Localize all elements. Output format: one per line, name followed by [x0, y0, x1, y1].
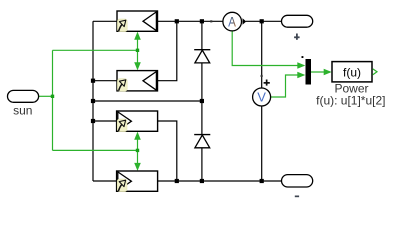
wire: voltmeter branch lower vertical x=261.7 [261, 106, 263, 181]
wire: B3 output to bottom rail vertical x=176.8 [158, 121, 177, 181]
signal wire: sun branch vertical x=52.5 [52, 50, 54, 150]
wire: left rail vertical x=93 [92, 21, 94, 181]
signal wire: vertical to B1/B2 irradiance ports [137, 34, 139, 68]
signal wire: voltmeter output right, up, right to mux [271, 75, 304, 97]
wire: B3 left port stub [93, 120, 117, 122]
arrowhead into f(u) input [324, 69, 332, 75]
arrowhead into mux input 2 [297, 72, 305, 78]
junction dot bottom rail at B3/B4 join [175, 179, 179, 183]
junction dot left rail at mid node [91, 99, 95, 103]
junction dot top rail at diode chain [200, 19, 204, 23]
arrowhead into B4 top [134, 163, 141, 171]
wire: B2 left port stub [93, 80, 117, 82]
svg-text:A: A [228, 13, 236, 29]
diode D1 (bypass, pointing up) [194, 50, 210, 63]
output port - (oval) [282, 175, 313, 187]
wire: B4 left port stub [93, 180, 117, 182]
green junction at lower pair branch [136, 149, 139, 152]
wire: voltmeter branch upper vertical x=261.7 [261, 21, 263, 88]
svg-text:sun: sun [13, 104, 32, 118]
junction dot top rail at B1/B2 join [175, 19, 179, 23]
library link badge on block 4 [117, 179, 127, 192]
arrowhead into B3 bottom [134, 132, 141, 140]
solar cell block 3 (mirrored) [117, 111, 158, 131]
unconnected output chevron of f(u) [373, 69, 377, 75]
svg-text:f(u): u[1]*u[2]: f(u): u[1]*u[2] [316, 93, 385, 107]
signal wire: upper branch horizontal y=50.3 [53, 49, 138, 51]
arrowhead into B1 bottom [134, 32, 141, 40]
solar cell block 1 [117, 11, 158, 31]
Fcn block f(u) [332, 62, 372, 82]
junction dot mid node at diode chain [200, 99, 204, 103]
arrowhead into B2 top [134, 62, 141, 70]
label + [294, 36, 300, 38]
wire: top rail from B1 output to ammeter [158, 20, 223, 22]
junction dot top rail at voltmeter branch [260, 19, 264, 23]
junction dot bottom rail at voltmeter branch [260, 179, 264, 183]
solar cell block 2 [117, 71, 158, 91]
junction dot bottom rail at diode chain [200, 179, 204, 183]
ammeter (current sensor) [223, 12, 242, 31]
arrowhead into mux input 1 [297, 62, 305, 68]
library link badge on block 2 [117, 79, 127, 92]
mux tiny dot [302, 56, 304, 58]
library link badge on block 3 [117, 119, 127, 132]
plus polarity mark at voltmeter [264, 82, 270, 84]
wire: diode chain vertical middle [201, 63, 203, 135]
junction dot left rail at B2 [91, 79, 95, 83]
output port + (oval) [282, 15, 313, 27]
wire: bottom rail y=181 [158, 180, 282, 182]
label - [295, 196, 299, 198]
wire: mid node horizontal y=101 [93, 100, 202, 102]
voltmeter (voltage sensor) [253, 88, 271, 106]
signal wire: lower branch horizontal y=150.4 [53, 149, 138, 151]
arrowhead after ammeter [243, 18, 247, 25]
signal wire: mux output to f(u) [311, 71, 330, 73]
diode D2 (bypass, pointing up) [194, 135, 210, 148]
wire: diode chain vertical lower [201, 148, 203, 182]
green junction at sun branch [51, 95, 54, 98]
tick on voltmeter wire [261, 75, 263, 77]
solar cell block 4 (mirrored) [117, 171, 158, 191]
tick on top rail [210, 20, 212, 22]
wire: top rail from ammeter arrow to plus port [246, 20, 282, 22]
signal wire: vertical to B3/B4 irradiance ports [137, 134, 139, 168]
signal wire: ammeter output down then right to mux [232, 31, 303, 66]
wire: B1/B2 output join vertical x=176.8 [158, 21, 177, 80]
input port sun (oval) [8, 90, 39, 102]
wire: B1 left port stub [93, 20, 117, 22]
junction dot left rail at B3 [91, 119, 95, 123]
signal wire: sun output to branch [39, 95, 53, 97]
green junction at upper pair branch [136, 49, 139, 52]
wire: diode chain vertical upper [201, 21, 203, 49]
mux bar [306, 59, 312, 85]
library link badge on block 1 [117, 19, 127, 32]
svg-text:f(u): f(u) [343, 65, 361, 79]
svg-text:V: V [257, 90, 266, 105]
